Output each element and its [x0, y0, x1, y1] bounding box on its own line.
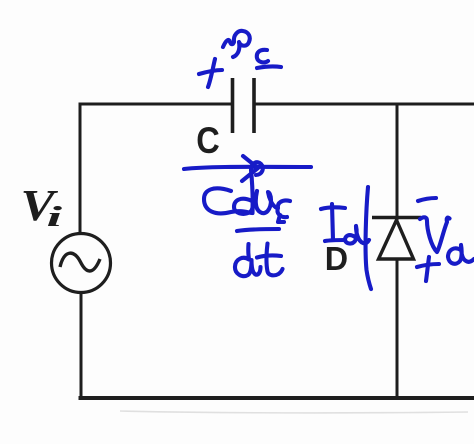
wire left vertical — [79, 103, 82, 235]
annotation minus (Vd) — [418, 198, 436, 201]
annotation plus sign (capacitor left) — [199, 70, 222, 74]
annotation Cdvc: C — [204, 188, 252, 213]
source Vi — [52, 234, 111, 293]
annotation Vd: V — [420, 217, 450, 252]
annotation Cdvc: epsilon subscript with arrow — [277, 200, 290, 217]
wire shadow (faint) — [120, 411, 468, 413]
svg-text:C: C — [196, 120, 220, 161]
annotation arrow (Cdvc) — [184, 167, 311, 169]
annotation Vd: d subscript — [448, 245, 474, 264]
annotation Id arrow line — [366, 187, 371, 289]
diode D — [372, 218, 421, 260]
wire right vertical top — [396, 103, 399, 221]
wire bottom — [79, 396, 474, 400]
annotation Cdvc: d loop — [234, 199, 253, 214]
svg-text:D: D — [325, 240, 348, 277]
annotation plus (Vd) — [417, 264, 439, 267]
annotation fraction bar — [237, 229, 279, 231]
blue handwritten annotations — [184, 31, 474, 289]
wire top left segment — [80, 103, 231, 106]
wire top right segment — [255, 103, 474, 106]
wire below source — [80, 293, 83, 399]
annotation Id: d subscript — [345, 226, 369, 244]
label Vi — [21, 182, 63, 232]
capacitor C — [233, 78, 255, 133]
annotation Cdvc: v — [256, 191, 277, 213]
annotation dt — [235, 244, 261, 276]
annotation Cdvc: d ascender with top loop — [251, 162, 263, 213]
wire below diode — [396, 259, 399, 400]
annotation c subscript — [257, 50, 268, 63]
annotation vc squiggle — [223, 31, 250, 57]
annotation underline — [257, 66, 281, 68]
svg-text:i: i — [47, 201, 63, 232]
annotation Id: I — [332, 204, 333, 240]
